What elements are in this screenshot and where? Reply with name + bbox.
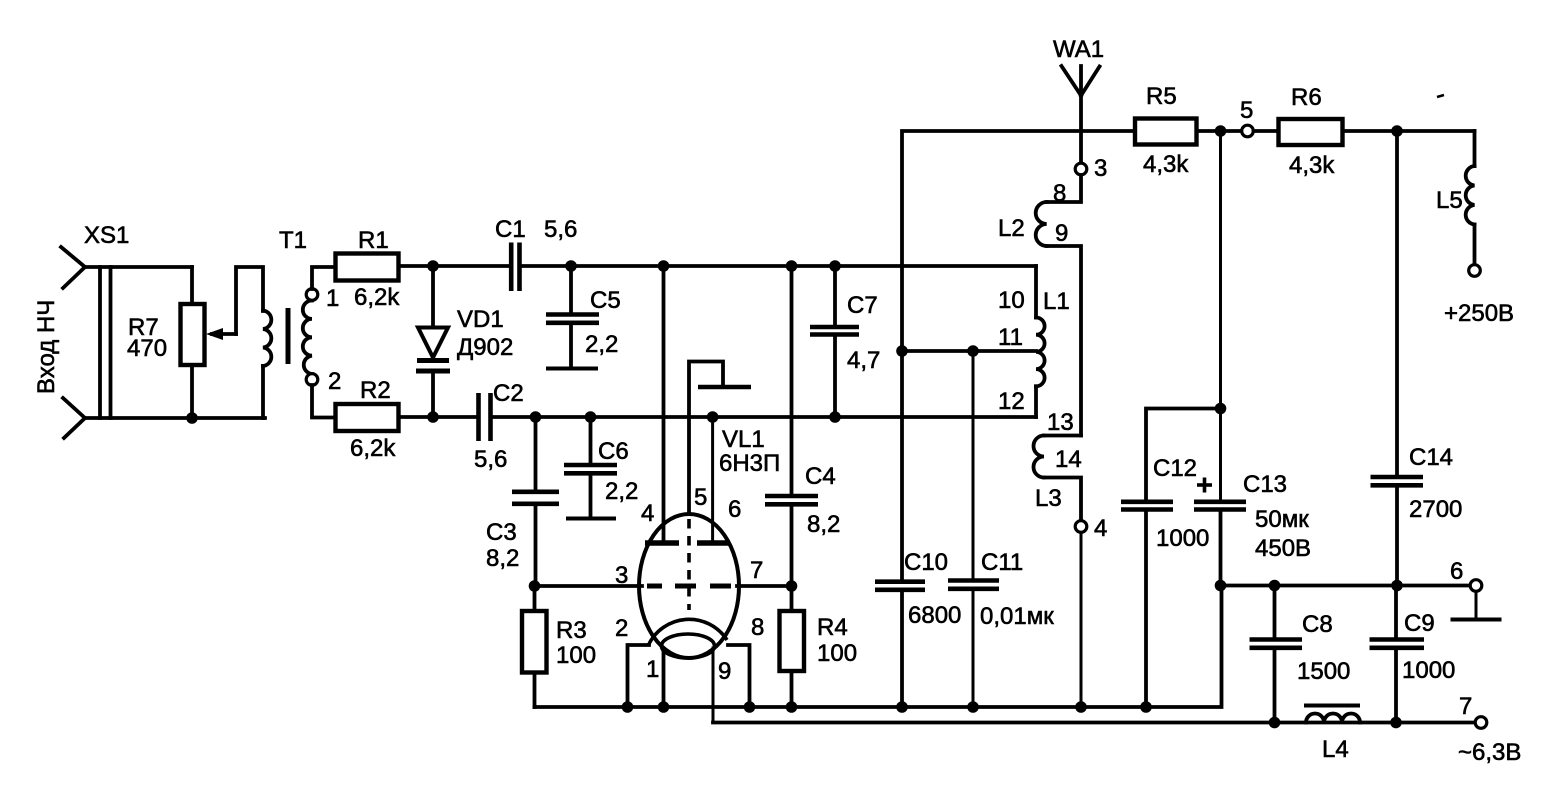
resistor R5 xyxy=(1135,83,1197,178)
resistor R3 xyxy=(522,586,596,707)
wire grid right (pin 7) xyxy=(737,584,792,588)
WA1 left arm xyxy=(1062,66,1082,96)
svg-text:VL1: VL1 xyxy=(722,426,765,453)
svg-text:C11: C11 xyxy=(981,549,1023,576)
junction C11 top on tap wire xyxy=(967,345,979,357)
svg-text:Д902: Д902 xyxy=(457,334,513,361)
L3 bottom lead xyxy=(1044,478,1081,522)
capacitor C7 xyxy=(810,266,880,417)
junction C3 top xyxy=(530,411,542,423)
svg-text:C1: C1 xyxy=(495,216,526,243)
wire second rail: C2 to L1 corner xyxy=(493,415,1037,419)
svg-text:7: 7 xyxy=(1459,693,1472,720)
svg-text:0,01мк: 0,01мк xyxy=(980,603,1054,630)
C3 bottom lead xyxy=(534,504,538,586)
resistor R2 xyxy=(336,377,399,462)
VL1 pin 8 lead xyxy=(728,645,750,707)
svg-text:6: 6 xyxy=(1450,558,1463,585)
junction C6 top xyxy=(585,411,597,423)
svg-text:C8: C8 xyxy=(1302,611,1333,638)
T1 secondary winding xyxy=(303,301,312,375)
svg-text:6,2k: 6,2k xyxy=(350,435,396,462)
capacitor C12 xyxy=(1121,409,1221,708)
C12 bottom lead xyxy=(1144,510,1148,707)
junction grid right / C4 / R4 xyxy=(786,580,798,592)
wire R6 right to L5 corner xyxy=(1343,129,1475,133)
wire heater line (tube pin 9 to terminal 7) xyxy=(713,721,1475,725)
stray mark xyxy=(1437,95,1444,97)
R7 bottom lead xyxy=(190,365,194,418)
junction C5 top xyxy=(565,260,577,272)
junction R4 on ground rail xyxy=(786,701,798,713)
C5 top lead xyxy=(569,266,573,314)
junction tube pin6 column xyxy=(707,411,719,423)
svg-text:L1: L1 xyxy=(1043,288,1070,315)
L2 top lead xyxy=(1047,175,1081,202)
T1 secondary top lead to R1 xyxy=(312,267,336,289)
L1 bottom lead to second rail corner xyxy=(1034,386,1038,417)
junction tube pin4 column top xyxy=(658,260,670,272)
C11 top lead xyxy=(972,351,975,580)
wire anode rail to R5 (antenna rail) xyxy=(902,131,1135,266)
junction C7 top xyxy=(829,260,841,272)
T1 primary winding xyxy=(263,311,271,367)
C6 bottom lead xyxy=(589,473,593,517)
junction anode column top xyxy=(786,260,798,272)
C6 top lead xyxy=(589,417,593,464)
capacitor C14 xyxy=(1371,131,1463,586)
capacitor C8 xyxy=(1250,586,1351,723)
T1 primary bottom lead xyxy=(261,366,265,418)
coil L2 xyxy=(998,175,1081,436)
capacitor C1 xyxy=(495,216,577,291)
VL1 grid dashes xyxy=(647,584,662,589)
potentiometer R7 xyxy=(127,267,263,418)
wire C10 column (antenna rail down to C10) xyxy=(900,266,904,581)
svg-text:2,2: 2,2 xyxy=(605,478,638,505)
R7 body xyxy=(181,304,205,365)
svg-text:5: 5 xyxy=(1240,97,1253,124)
resistor R4 xyxy=(780,586,858,707)
L2 bottom lead xyxy=(1047,246,1081,436)
svg-text:R5: R5 xyxy=(1146,83,1177,110)
T1 pin 2 terminal circle xyxy=(306,374,318,386)
wire main ground rail xyxy=(535,586,1222,708)
svg-text:L5: L5 xyxy=(1436,187,1463,214)
svg-text:C9: C9 xyxy=(1404,610,1435,637)
wire R5 right to terminal 5 xyxy=(1197,129,1243,133)
svg-text:R3: R3 xyxy=(556,617,587,644)
capacitor C13 (electrolytic) xyxy=(1194,471,1311,586)
svg-text:9: 9 xyxy=(718,658,731,685)
C7 bottom lead xyxy=(833,335,837,417)
svg-text:C3: C3 xyxy=(486,519,517,546)
svg-text:2: 2 xyxy=(615,615,628,642)
VL1 shield bar xyxy=(698,385,751,389)
junction C13 column top xyxy=(1215,125,1227,137)
connector XS1 xyxy=(33,222,129,438)
svg-text:3: 3 xyxy=(1094,155,1107,182)
C4 top lead from top rail xyxy=(790,266,794,495)
C11 bottom lead xyxy=(972,589,975,707)
R7 wiper wire to T1 xyxy=(236,267,263,334)
svg-text:C5: C5 xyxy=(590,287,621,314)
svg-text:1: 1 xyxy=(646,656,659,683)
VL1 pin 4 lead from top rail xyxy=(662,266,666,543)
wire tap: C10 column to L1 tap xyxy=(902,349,1036,353)
junction C8 top on bus xyxy=(1269,580,1281,592)
VL1 heater ellipse xyxy=(662,634,715,658)
L5 winding xyxy=(1466,166,1475,225)
L4 core line xyxy=(1304,704,1360,708)
svg-text:1500: 1500 xyxy=(1297,658,1350,685)
svg-text:470: 470 xyxy=(127,335,167,362)
coil L1 xyxy=(998,266,1070,417)
L5 terminal circle xyxy=(1469,265,1481,277)
C10 bottom lead xyxy=(900,590,904,707)
C14 bottom lead xyxy=(1395,485,1399,586)
R4 bottom lead xyxy=(790,671,794,707)
vacuum tube VL1 6Н3П xyxy=(615,266,780,723)
svg-text:6800: 6800 xyxy=(908,602,961,629)
WA1 right arm xyxy=(1081,67,1100,96)
L5 bottom lead xyxy=(1473,225,1477,265)
svg-text:C6: C6 xyxy=(598,438,629,465)
wire top rail: R1 right to C1 xyxy=(399,264,510,268)
junction C13 bottom on bus xyxy=(1215,580,1227,592)
capacitor C11 xyxy=(948,351,1054,707)
C9 top lead xyxy=(1394,586,1398,640)
wire top rail: C1 to L1 corner xyxy=(522,264,1037,268)
junction C8 bottom on heater line xyxy=(1269,717,1281,729)
VD1 bottom lead xyxy=(431,371,435,417)
svg-text:Вход НЧ: Вход НЧ xyxy=(33,300,60,394)
capacitor C4 xyxy=(765,266,840,586)
svg-text:5: 5 xyxy=(694,484,707,511)
svg-text:C12: C12 xyxy=(1153,455,1197,482)
capacitor C3 xyxy=(486,417,559,586)
VL1 left anode bar xyxy=(645,540,679,546)
svg-text:5,6: 5,6 xyxy=(544,216,577,243)
L1 winding xyxy=(1036,318,1045,387)
wire C13 column (terminal 5 down to C13) xyxy=(1219,131,1222,501)
XS1 plug line 2 xyxy=(109,267,113,418)
XS1 bottom contact chevron xyxy=(63,398,85,438)
VD1 capacitor bar xyxy=(416,369,450,374)
junction C11 on ground rail xyxy=(967,701,979,713)
svg-text:2: 2 xyxy=(328,368,341,395)
svg-text:4: 4 xyxy=(1094,515,1107,542)
svg-text:+250В: +250В xyxy=(1444,300,1514,327)
junction VD1 bottom xyxy=(427,411,439,423)
WA1 stem xyxy=(1079,66,1083,131)
wire WA1 stem to terminal 3 xyxy=(1079,131,1083,164)
T1 secondary bottom lead to R2 xyxy=(312,385,336,418)
L5 top lead xyxy=(1473,131,1477,166)
svg-text:1000: 1000 xyxy=(1402,657,1455,684)
VD1 triangle xyxy=(418,328,448,358)
svg-text:7: 7 xyxy=(750,557,763,584)
resistor R1 xyxy=(336,227,401,311)
chassis bar at terminal 6 xyxy=(1451,618,1502,622)
VL1 pin 1 lead xyxy=(662,653,666,707)
svg-text:4,7: 4,7 xyxy=(847,347,880,374)
terminal circle 4 xyxy=(1075,521,1087,533)
svg-text:WA1: WA1 xyxy=(1053,36,1104,63)
svg-text:C4: C4 xyxy=(805,463,836,490)
svg-text:6Н3П: 6Н3П xyxy=(719,450,780,477)
terminal circle 7 xyxy=(1475,717,1487,729)
wire terminal 6 chassis stub xyxy=(1475,592,1478,619)
junction C7 bottom xyxy=(829,411,841,423)
svg-text:C14: C14 xyxy=(1409,444,1453,471)
svg-text:T1: T1 xyxy=(279,227,307,254)
junction terminal-4 column on ground rail xyxy=(1075,701,1087,713)
svg-text:2,2: 2,2 xyxy=(585,331,618,358)
svg-text:VD1: VD1 xyxy=(457,306,504,333)
junction tap wire on C10 column xyxy=(896,345,908,357)
svg-text:L3: L3 xyxy=(1035,485,1062,512)
choke L4 xyxy=(1304,706,1360,764)
transformer T1 xyxy=(263,227,341,418)
svg-text:8: 8 xyxy=(1053,180,1066,207)
C8 bottom lead xyxy=(1273,648,1277,723)
svg-text:1000: 1000 xyxy=(1156,525,1209,552)
wire terminal 5 to R6 xyxy=(1254,129,1279,133)
svg-text:50мк: 50мк xyxy=(1255,506,1309,533)
resistor R6 xyxy=(1279,84,1445,179)
svg-text:4,3k: 4,3k xyxy=(1289,152,1335,179)
svg-text:R4: R4 xyxy=(817,614,848,641)
junction pin8 on ground rail xyxy=(744,701,756,713)
terminal circle 6 xyxy=(1470,580,1482,592)
C5 bottom lead xyxy=(569,323,573,367)
VD1 anode lead xyxy=(431,266,435,328)
R4 top lead xyxy=(790,586,794,611)
R3 top lead xyxy=(533,586,537,611)
C9 bottom lead xyxy=(1394,648,1398,723)
C14 top lead xyxy=(1395,131,1399,476)
terminal circle 3 xyxy=(1075,163,1087,175)
diode VD1 (varicap) xyxy=(416,266,513,417)
capacitor C2 xyxy=(474,380,524,473)
L2 winding xyxy=(1036,202,1047,246)
capacitor C9 xyxy=(1370,586,1456,723)
svg-text:100: 100 xyxy=(556,642,596,669)
svg-text:13: 13 xyxy=(1047,409,1074,436)
C13 bottom lead xyxy=(1219,510,1223,586)
svg-text:5,6: 5,6 xyxy=(474,446,507,473)
wire second rail: R2 right to C2 xyxy=(399,415,477,419)
junction C12 elbow xyxy=(1215,403,1227,415)
svg-text:6: 6 xyxy=(728,496,741,523)
svg-text:R6: R6 xyxy=(1291,84,1322,111)
svg-text:~6,3В: ~6,3В xyxy=(1458,739,1521,766)
svg-text:R1: R1 xyxy=(358,227,389,254)
svg-text:XS1: XS1 xyxy=(84,222,129,249)
C6 chassis bar xyxy=(566,517,616,521)
junction R7 bottom on rail xyxy=(186,412,198,424)
R7 top lead xyxy=(190,267,194,304)
svg-text:9: 9 xyxy=(1055,220,1068,247)
wire XS1 bottom rail to T1 primary xyxy=(85,416,265,420)
capacitor C6 xyxy=(564,417,638,519)
wire terminal 4 to ground rail xyxy=(1080,533,1083,708)
svg-text:14: 14 xyxy=(1055,446,1082,473)
C4 bottom lead xyxy=(790,504,794,586)
svg-text:8: 8 xyxy=(751,614,764,641)
svg-text:6,2k: 6,2k xyxy=(354,284,400,311)
svg-text:C13: C13 xyxy=(1243,471,1287,498)
VL1 internal shield dashed line xyxy=(687,519,691,610)
XS1 plug line 1 xyxy=(98,267,102,418)
svg-text:10: 10 xyxy=(998,287,1025,314)
R3 bottom lead xyxy=(533,673,537,708)
antenna WA1 xyxy=(1053,36,1104,131)
junction C9 bottom on heater line xyxy=(1390,717,1402,729)
wire grid left (pin 3) xyxy=(535,584,643,588)
junction pin1 on ground rail xyxy=(658,701,670,713)
VL1 envelope xyxy=(639,514,739,658)
C5 chassis bar xyxy=(546,367,598,371)
VL1 cathode arc xyxy=(648,619,727,646)
C8 top lead xyxy=(1273,586,1277,640)
junction C14 top xyxy=(1391,125,1403,137)
VL1 pin 6 lead xyxy=(711,417,714,543)
capacitor C10 xyxy=(875,549,961,707)
L3 winding xyxy=(1034,436,1045,478)
T1 core xyxy=(286,308,291,364)
svg-text:450В: 450В xyxy=(1255,535,1311,562)
capacitor C5 xyxy=(546,266,621,369)
svg-text:1: 1 xyxy=(326,285,339,312)
junction VD1 top xyxy=(427,260,439,272)
svg-text:8,2: 8,2 xyxy=(486,545,519,572)
VD1 cathode bar xyxy=(417,358,449,363)
svg-text:2700: 2700 xyxy=(1409,496,1462,523)
svg-text:8,2: 8,2 xyxy=(807,511,840,538)
svg-text:L2: L2 xyxy=(998,215,1025,242)
coil L3 xyxy=(1034,409,1082,521)
svg-text:4,3k: 4,3k xyxy=(1143,151,1189,178)
terminal circle 5 xyxy=(1242,125,1254,137)
wire ground bus right xyxy=(1221,584,1471,588)
junction pin2 on ground rail xyxy=(622,701,634,713)
VL1 right anode bar xyxy=(697,540,730,546)
C12 top elbow lead xyxy=(1146,409,1221,502)
C13 polarity plus xyxy=(1197,483,1212,487)
junction C12 on ground rail xyxy=(1140,701,1152,713)
junction C9 / C14 on bus xyxy=(1391,580,1403,592)
VL1 pin 2 lead xyxy=(628,645,650,707)
VL1 pin 5 shield lead with elbow xyxy=(689,362,723,515)
svg-text:C10: C10 xyxy=(904,549,948,576)
svg-text:12: 12 xyxy=(998,388,1025,415)
junction grid left / C3 / R3 xyxy=(529,580,541,592)
svg-text:4: 4 xyxy=(641,500,654,527)
svg-text:100: 100 xyxy=(817,640,857,667)
C3 top lead xyxy=(534,417,538,491)
wire XS1 top to R7 xyxy=(85,265,192,269)
coil L5 xyxy=(1436,131,1514,327)
junction C10 on ground rail xyxy=(896,701,908,713)
VL1 pin 9 lead xyxy=(713,648,718,723)
svg-text:11: 11 xyxy=(998,324,1023,351)
L3 top lead xyxy=(1044,434,1081,438)
XS1 top contact chevron xyxy=(61,247,85,288)
svg-text:L4: L4 xyxy=(1322,736,1349,763)
R7 wiper arrow xyxy=(212,332,236,336)
svg-text:C2: C2 xyxy=(493,380,524,407)
L4 winding xyxy=(1306,714,1360,723)
C7 top lead xyxy=(833,266,837,326)
T1 pin 1 terminal circle xyxy=(306,289,318,301)
svg-text:C7: C7 xyxy=(847,292,878,319)
svg-text:R2: R2 xyxy=(360,377,391,404)
L1 top lead from top rail corner xyxy=(1034,266,1038,318)
